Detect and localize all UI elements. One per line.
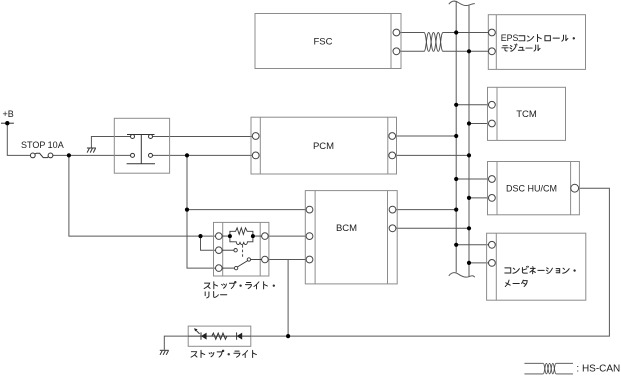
bus line 2 HS-CAN: [468, 6, 470, 278]
wire FSC pin1 to twisted pair: [400, 32, 424, 34]
svg-text:BCM: BCM: [336, 223, 357, 234]
wire switch bottom-right to PCM pin2: [153, 154, 253, 156]
node bus2 DSC row: [467, 196, 471, 200]
wire bus1 to DSC pin1: [456, 178, 489, 180]
label stop light relay line1: [204, 282, 274, 289]
node A2 BCM/relay branch junction: [185, 208, 189, 212]
FSC pin2: [393, 48, 400, 55]
relay pin C3: [216, 265, 223, 272]
module DSC HU/CM: [488, 162, 580, 215]
svg-text:DSC HU/CM: DSC HU/CM: [506, 183, 557, 193]
EPS pin1: [489, 29, 496, 36]
stop light switch box: [114, 118, 169, 173]
svg-text:STOP 10A: STOP 10A: [21, 140, 64, 150]
LED D2: [236, 332, 238, 339]
DSC pin3: [571, 184, 579, 192]
svg-text:: HS-CAN: : HS-CAN: [576, 364, 620, 375]
legend twisted pair symbol: [524, 363, 573, 374]
svg-text:+B: +B: [3, 109, 14, 119]
BCM pin2: [306, 233, 313, 240]
wire stop light to ground2: [164, 336, 188, 350]
module EPS control module: [488, 15, 585, 70]
wire node A down to BCM pin1: [187, 155, 307, 209]
wire bus1 to combination meter pin1: [456, 244, 489, 246]
node bus2 TCM row: [467, 121, 471, 125]
svg-text:EPS: EPS: [501, 33, 519, 43]
svg-text:PCM: PCM: [313, 141, 334, 152]
relay coil resistor branch: [222, 228, 262, 270]
wire relay C5 to BCM pin3: [268, 259, 306, 261]
wire bus2 to combination meter pin2: [469, 262, 489, 264]
svg-text:TCM: TCM: [516, 109, 537, 120]
PCM pin2: [252, 152, 259, 159]
label stop light: [191, 350, 256, 357]
module FSC: [255, 14, 401, 69]
stop light resistor: [212, 333, 227, 339]
wire relay C4 to BCM pin2: [268, 235, 306, 237]
relay pin C4: [262, 233, 269, 240]
relay contact NO: [222, 249, 234, 251]
relay contact pivot: [222, 267, 234, 269]
wire PCM pin3 to bus1: [396, 135, 457, 137]
fuse STOP 10A: [30, 153, 52, 158]
DSC pin1: [489, 176, 496, 183]
module PCM: [251, 117, 397, 174]
wire BCM pin5 to bus2: [396, 227, 469, 229]
battery +B terminal: [1, 122, 14, 124]
EPS pin2: [489, 48, 496, 55]
relay actuation dashed line: [242, 245, 244, 258]
node fuse junction: [67, 153, 71, 157]
bus bottom break symbol: [449, 273, 475, 277]
wire bus1 to TCM pin1: [456, 104, 489, 106]
BCM pin5: [389, 225, 396, 232]
relay switch arm: [238, 261, 248, 267]
node bus2 meter row: [467, 261, 471, 265]
wire DSC pin3 right side down and along bottom to stop light: [251, 188, 610, 336]
PCM pin3: [389, 133, 396, 140]
node bus2 EPS row: [467, 49, 471, 53]
wire bus2 to DSC pin2: [469, 197, 489, 199]
wire +B down to fuse: [7, 123, 30, 155]
relay coil inductor branch: [230, 236, 262, 244]
wire bus2 to TCM pin2: [469, 123, 489, 125]
twisted pair FSC-EPS: [424, 33, 443, 52]
wire PCM pin4 to bus2: [396, 154, 470, 156]
ground G1 (stop switch circuit): [87, 148, 96, 153]
module TCM: [488, 87, 566, 140]
node stop light branch junction: [286, 334, 290, 338]
wire C5 branch down to stop light run: [287, 260, 289, 337]
DSC pin2: [489, 195, 496, 202]
node bus1 TCM row: [454, 103, 458, 107]
relay box (stop light relay): [214, 222, 269, 276]
stop light internal wire: [188, 335, 251, 337]
bus line 1 HS-CAN: [455, 2, 457, 272]
wire switch top-right to PCM pin1: [153, 136, 253, 138]
stop light box: [188, 326, 251, 346]
relay coil node left: [228, 234, 232, 238]
wire node A2 down to relay C3: [187, 210, 216, 269]
FSC pin1: [393, 29, 400, 36]
node bus1 meter row: [454, 243, 458, 247]
wire branch to relay C2: [201, 236, 216, 250]
node A switch output junction: [185, 153, 189, 157]
wire FSC pin2 to twisted pair: [400, 50, 424, 52]
wire junction down then right to relay C1: [69, 155, 216, 236]
module BCM: [305, 191, 397, 284]
ground G2 (stop light): [160, 350, 169, 355]
bus top break symbol: [449, 1, 475, 5]
node relay C2 branch junction: [198, 234, 202, 238]
BCM pin3: [306, 256, 313, 263]
svg-text:FSC: FSC: [314, 37, 333, 48]
module combination meter: [487, 233, 586, 300]
meter pin1: [489, 241, 496, 248]
relay pin C5: [262, 256, 269, 263]
BCM pin4: [389, 206, 396, 213]
wire ground1 to switch top-left pin: [91, 137, 130, 149]
wire BCM pin4 to bus1: [396, 209, 456, 211]
node bus2 BCM row: [467, 226, 471, 230]
BCM pin1: [306, 206, 313, 213]
PCM pin1: [252, 133, 259, 140]
node bus2 PCM row: [467, 153, 471, 157]
relay contact common: [251, 259, 262, 261]
wire twisted pair to EPS pin2 (CAN-L): [443, 50, 489, 52]
node bus1 EPS row: [454, 30, 458, 34]
relay pin C2: [216, 247, 223, 254]
LED emission arrow: [196, 330, 200, 334]
relay coil node right: [251, 234, 255, 238]
wire twisted pair to EPS pin1 (CAN-H): [443, 32, 489, 34]
TCM pin2: [489, 120, 496, 127]
TCM pin1: [489, 101, 496, 108]
node bus1 PCM row: [454, 134, 458, 138]
wire fuse to junction and switch pin: [53, 154, 131, 156]
stop light switch symbol: [127, 135, 155, 164]
node bus1 DSC row: [454, 177, 458, 181]
node bus1 BCM row: [454, 208, 458, 212]
LED D1: [200, 332, 202, 339]
PCM pin4: [389, 152, 396, 159]
meter pin2: [489, 260, 496, 267]
relay pin C1: [216, 233, 223, 240]
